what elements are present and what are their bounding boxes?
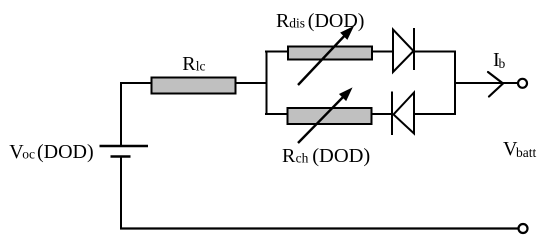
- variable-resistor arrow through Rdis: [298, 27, 353, 85]
- voltage source Voc battery short plate: [111, 155, 131, 157]
- wire: left busbar of parallel branches: [266, 51, 268, 116]
- current arrow Ib chevron: [488, 72, 503, 97]
- diode D1 (discharge path, pointing right) triangle: [393, 30, 414, 73]
- wire: main top horizontal from battery to parallel block: [120, 82, 266, 84]
- terminal: top output circle: [518, 79, 527, 88]
- svg-text:dis: dis: [289, 16, 305, 31]
- svg-text:b: b: [499, 56, 506, 71]
- resistor Rlc body: [152, 78, 236, 94]
- variable-resistor arrow through Rch: [298, 89, 352, 144]
- wire: bottom rail to right terminal: [120, 227, 519, 229]
- svg-text:(DOD): (DOD): [308, 10, 365, 32]
- label Vbatt: [503, 138, 536, 160]
- svg-text:lc: lc: [196, 59, 206, 74]
- wire: left vertical from top wire down to battery + plate: [120, 82, 122, 146]
- wire: right busbar joining the two branches: [454, 51, 456, 116]
- resistor Rch body (variable): [288, 108, 372, 124]
- label Rdis (DOD): [276, 10, 364, 32]
- diode D1 cathode bar: [413, 28, 415, 70]
- svg-text:R: R: [276, 10, 290, 32]
- label Ib: [493, 49, 506, 71]
- terminal: bottom output circle: [519, 224, 528, 233]
- svg-text:R: R: [182, 53, 196, 75]
- svg-text:(DOD): (DOD): [37, 141, 94, 163]
- label Rlc: [182, 53, 205, 75]
- svg-text:oc: oc: [22, 147, 35, 162]
- label Rch (DOD): [282, 145, 370, 167]
- svg-text:R: R: [282, 145, 296, 167]
- svg-text:ch: ch: [296, 151, 309, 166]
- wire: top branch horizontal into diode D1: [265, 51, 393, 53]
- wire: bottom branch from diode D2 to right busbar: [414, 113, 455, 115]
- diode D2 triangle: [394, 93, 415, 134]
- diode D2 (charge path, pointing left) cathode bar: [391, 92, 393, 136]
- svg-text:(DOD): (DOD): [312, 145, 370, 167]
- wire: output lead to Ib terminal: [455, 82, 519, 84]
- wire: top branch from diode D1 to right busbar: [414, 51, 455, 53]
- svg-text:batt: batt: [516, 145, 536, 160]
- wire: bottom branch horizontal into diode D2: [265, 113, 392, 115]
- resistor Rdis body (variable): [288, 47, 372, 60]
- voltage source Voc battery long plate: [100, 145, 149, 147]
- label Voc (DOD): [9, 141, 93, 163]
- wire: left vertical from battery - plate down to bottom rail: [120, 157, 122, 229]
